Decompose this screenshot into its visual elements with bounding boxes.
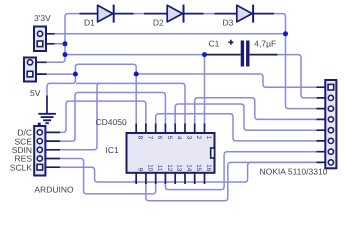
svg-text:16: 16 bbox=[205, 164, 212, 172]
svg-text:7: 7 bbox=[146, 136, 153, 140]
node C1 left / pin1 riser bbox=[202, 52, 207, 57]
svg-text:3: 3 bbox=[186, 136, 193, 140]
svg-text:14: 14 bbox=[186, 164, 193, 172]
svg-text:4: 4 bbox=[176, 136, 183, 140]
wire GND: B right jog to NOKIA pin1 bbox=[136, 74, 316, 87]
wire junction up to IC pin9 bbox=[133, 174, 136, 182]
wire D/C riser to IC pin7 bbox=[60, 101, 146, 132]
wire SDIN riser to IC pin5 bbox=[60, 83, 185, 149]
svg-text:ARDUINO: ARDUINO bbox=[34, 185, 74, 195]
wire IC pin6 to NOKIA pin6 bbox=[156, 114, 317, 141]
svg-text:D3: D3 bbox=[223, 18, 234, 28]
svg-text:11: 11 bbox=[156, 165, 163, 172]
svg-text:CD4050: CD4050 bbox=[96, 117, 127, 127]
svg-text:6: 6 bbox=[156, 136, 163, 140]
svg-text:3'3V: 3'3V bbox=[34, 13, 51, 23]
svg-text:13: 13 bbox=[176, 164, 183, 172]
diode D3 bbox=[237, 5, 253, 23]
diode D2 bbox=[167, 5, 183, 23]
svg-text:NOKIA 5110/3310: NOKIA 5110/3310 bbox=[260, 167, 328, 177]
connector 3'3V bbox=[34, 27, 55, 52]
junction dots bbox=[63, 31, 289, 76]
svg-text:SCLK: SCLK bbox=[10, 162, 33, 172]
IC pin numbers bottom bbox=[137, 164, 212, 172]
wire IC pin12 to NOKIA pin7 bbox=[165, 152, 316, 190]
wire 5V circle pin to D1 anode rail (vertical x=65) bbox=[46, 14, 80, 63]
connector NOKIA bbox=[317, 80, 337, 168]
wire SCE riser to IC pin7 bbox=[60, 93, 165, 142]
wire GND bridge A up-over to B bbox=[75, 64, 136, 74]
IC1 CD4050 body bbox=[127, 124, 215, 185]
IC pin numbers top bbox=[137, 136, 212, 140]
ground bbox=[38, 96, 56, 124]
svg-text:5: 5 bbox=[166, 136, 173, 140]
connector ARDUINO bbox=[34, 123, 60, 176]
connector 5V bbox=[24, 58, 47, 82]
wire SCLK staircase to IC pin9 bbox=[60, 162, 317, 182]
node x65 / rail54 bbox=[63, 52, 68, 57]
wire light segments between diodes bbox=[134, 13, 215, 15]
wire IC pin10 to NOKIA pin8 bbox=[146, 162, 317, 200]
node 3'3V square / x65 bbox=[63, 41, 68, 46]
wire IC pin4 riser to NOKIA pin5 bbox=[175, 104, 316, 130]
svg-text:1: 1 bbox=[205, 136, 212, 140]
wire 3'3V square pin to vertical bbox=[54, 43, 65, 45]
wire IC pin1 riser from C1 junction bbox=[204, 55, 206, 126]
svg-text:D2: D2 bbox=[153, 18, 164, 28]
wire GND: A down-left to ground symbol bbox=[47, 74, 75, 97]
svg-text:D1: D1 bbox=[84, 18, 95, 28]
svg-text:2: 2 bbox=[195, 136, 202, 140]
wire y=83.4 segment from ground corner to SDIN riser bbox=[76, 82, 100, 84]
diode chain dark lead segments bbox=[80, 13, 275, 15]
wire C1 right to NOKIA pin2 bbox=[278, 55, 317, 98]
node B gnd bbox=[134, 72, 139, 77]
capacitor C1 bbox=[205, 40, 278, 67]
node D3 / rail33 bbox=[283, 31, 288, 36]
wire D3 cathode down to rail and NOKIA pin3 bbox=[274, 14, 317, 109]
svg-text:12: 12 bbox=[166, 164, 173, 172]
svg-text:15: 15 bbox=[195, 164, 202, 172]
svg-text:5V: 5V bbox=[30, 88, 41, 98]
svg-text:C1: C1 bbox=[209, 39, 220, 49]
wire 3.3V rail y=33.8 bbox=[54, 33, 286, 35]
svg-text:IC1: IC1 bbox=[106, 145, 120, 155]
node A gnd bbox=[73, 72, 78, 77]
svg-text:8: 8 bbox=[137, 136, 144, 140]
svg-text:4,7µF: 4,7µF bbox=[254, 39, 276, 49]
wire RES down to IC pin11 bbox=[60, 159, 156, 194]
diode D1 bbox=[98, 5, 114, 23]
svg-text:10: 10 bbox=[146, 164, 153, 172]
wire IC pin2 riser to NOKIA pin4 bbox=[195, 98, 317, 126]
wire GND: B down to IC pin8 bbox=[135, 74, 137, 126]
wire GND: 5V square pin to junction A bbox=[46, 73, 75, 75]
svg-text:9: 9 bbox=[137, 168, 144, 172]
wire rail y=54.6 from x65 to C1 junction bbox=[65, 54, 205, 56]
